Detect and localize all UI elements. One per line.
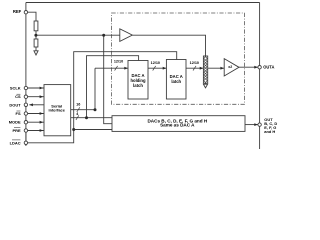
svg-text:interface: interface	[48, 108, 65, 113]
wire string to x2 amp	[208, 67, 224, 69]
svg-text:12/10: 12/10	[190, 61, 199, 65]
arrowheads	[29, 66, 258, 132]
svg-text:Same as DAC A: Same as DAC A	[160, 123, 195, 128]
bus slash on serial bus 0	[77, 107, 80, 112]
node bus1 riser	[85, 116, 88, 119]
pin MODE	[24, 121, 27, 124]
wire REF pin to divider	[27, 12, 36, 21]
buffer op-amp U1	[120, 29, 133, 42]
svg-text:x2: x2	[228, 65, 232, 69]
wire pin MODE	[27, 121, 44, 123]
svg-text:latch: latch	[133, 83, 143, 88]
node REF rail junction	[102, 34, 105, 37]
DAC resistor string box	[203, 56, 207, 83]
bus slash on serial bus 1	[76, 115, 79, 120]
wire string to ground arrow	[205, 83, 207, 84]
arrow DOUT out	[29, 103, 33, 106]
svg-text:12/10: 12/10	[151, 61, 160, 65]
svg-text:latch: latch	[171, 79, 181, 84]
svg-text:16: 16	[76, 102, 80, 106]
x2 amplifier	[224, 59, 239, 76]
svg-text:OUTA: OUTA	[263, 64, 274, 69]
pin SCLK	[24, 86, 27, 89]
wire pin FS	[27, 113, 44, 115]
wire serial bus 0	[71, 68, 95, 110]
arrow into string	[200, 67, 204, 70]
DAC A holding latch box	[128, 61, 148, 100]
resistor string zigzag	[204, 57, 207, 83]
wire LDAC net	[27, 52, 176, 143]
svg-text:PRE: PRE	[12, 128, 20, 133]
pin PRE	[24, 129, 27, 132]
overbar CS	[17, 93, 21, 95]
wire DACs B-H to OUT pin	[245, 124, 258, 126]
overbar PRE	[14, 127, 20, 129]
pin FS	[24, 112, 27, 115]
pin DOUT	[24, 103, 27, 106]
svg-text:holding: holding	[130, 78, 146, 83]
arrow into serial box pin6	[40, 129, 44, 132]
ground arrow below string (open)	[203, 84, 207, 88]
pin circles	[24, 11, 261, 145]
bus slash on line D	[115, 66, 118, 71]
IC outline right border	[259, 3, 261, 150]
ground arrow (open)	[34, 51, 38, 55]
DAC A latch box	[166, 60, 186, 100]
svg-text:DAC A: DAC A	[131, 73, 144, 78]
dash-dot replicated-channel box	[112, 13, 245, 104]
node bus0 riser	[94, 108, 97, 111]
wire pin PRE	[27, 130, 44, 132]
wire LDAC branch to DACs B-H box	[74, 129, 112, 131]
wire R2 to ground arrow	[35, 47, 37, 51]
svg-text:DAC A: DAC A	[170, 74, 183, 79]
arrow into holding latch	[124, 67, 128, 70]
pin LDAC	[24, 141, 27, 144]
wire main REF rail	[36, 34, 120, 36]
pin OUTA	[258, 66, 261, 69]
pin CS	[24, 95, 27, 98]
pin OUT B-H	[258, 123, 261, 126]
wire pin SCLK	[27, 87, 44, 89]
wire data bus into holding latch	[95, 67, 128, 69]
arrow into serial box pin4	[40, 112, 44, 115]
serial interface box	[44, 85, 71, 136]
bus slash before string	[193, 66, 196, 71]
arrow into serial box pin5	[40, 121, 44, 124]
arrow into serial box pin2	[40, 95, 44, 98]
arrow into OUT B-H pin	[254, 123, 258, 126]
arrow into OUTA pin	[254, 66, 258, 69]
node LDAC branch	[72, 128, 75, 131]
wire REF drop to DACs B-H	[104, 35, 112, 124]
svg-text:SCLK: SCLK	[10, 86, 21, 91]
svg-text:CS: CS	[15, 94, 21, 99]
bus slash between latches	[153, 66, 156, 71]
node divider tap	[34, 34, 37, 37]
wire R1 to R2	[35, 31, 37, 39]
junction dots	[34, 34, 105, 131]
svg-text:12/10: 12/10	[114, 60, 123, 64]
wire pin CS	[27, 96, 44, 98]
resistor R1	[34, 21, 38, 31]
svg-text:LDAC: LDAC	[10, 140, 21, 145]
svg-text:MODE: MODE	[9, 120, 21, 125]
arrow into x2 amp	[220, 67, 224, 70]
wire latch-clock riser C	[87, 56, 139, 118]
wire holding latch to DAC latch	[148, 67, 166, 69]
arrow into DAC latch	[163, 67, 167, 70]
wire DAC latch to resistor string	[186, 67, 203, 69]
overbar LDAC	[12, 139, 20, 141]
IC outline left border	[25, 3, 27, 147]
wire x2 amp to OUTA	[239, 66, 258, 68]
resistor R2	[34, 39, 38, 47]
wire serial bus 1	[71, 117, 112, 119]
wire pin6 to pin7	[25, 132, 27, 141]
svg-text:DOUT: DOUT	[9, 102, 21, 107]
svg-text:REF: REF	[13, 9, 22, 14]
pin REF	[24, 11, 27, 14]
svg-text:and H: and H	[264, 129, 275, 134]
DACs B-H box	[112, 116, 245, 132]
arrow into serial box pin1	[40, 87, 44, 90]
wire buffer output to DAC string top	[132, 35, 205, 56]
IC outline top border	[26, 2, 260, 4]
svg-text:FS: FS	[16, 111, 21, 116]
wire pin DOUT	[29, 104, 44, 106]
overbar FS	[17, 110, 21, 112]
